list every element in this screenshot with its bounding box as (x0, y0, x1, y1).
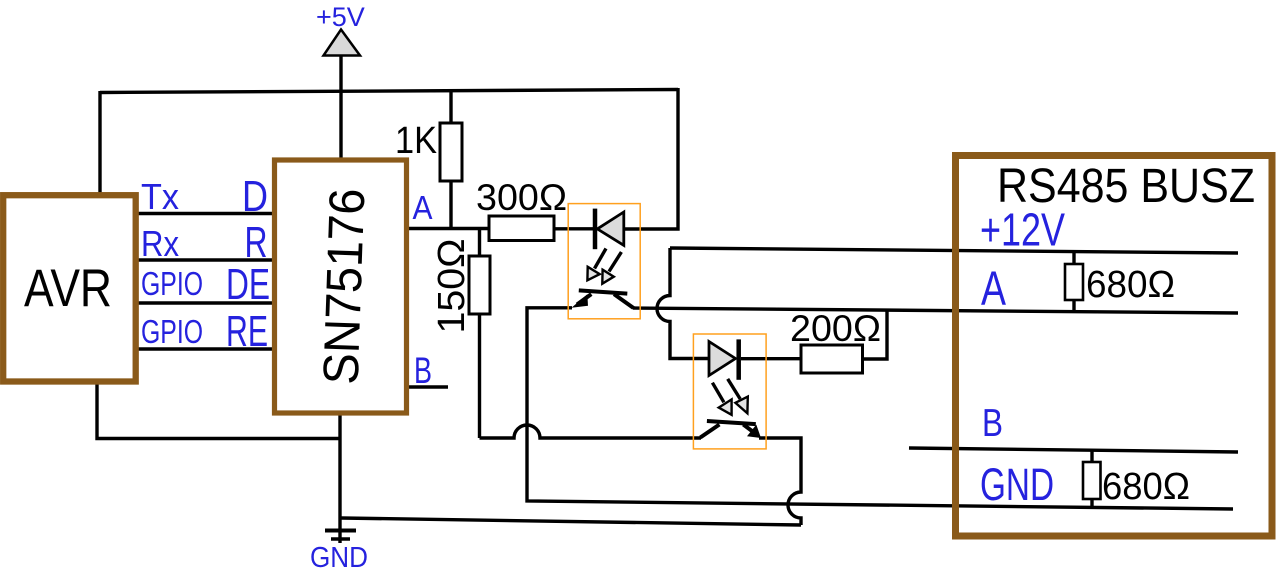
svg-text:RS485 BUSZ: RS485 BUSZ (997, 160, 1255, 213)
svg-text:+5V: +5V (316, 2, 365, 32)
svg-text:SN75176: SN75176 (313, 187, 376, 385)
svg-text:Rx: Rx (141, 223, 179, 264)
svg-text:A: A (981, 263, 1006, 316)
svg-text:150Ω: 150Ω (431, 239, 473, 334)
svg-text:Tx: Tx (141, 176, 179, 217)
svg-text:GPIO: GPIO (141, 265, 203, 302)
svg-text:D: D (242, 172, 268, 221)
svg-text:GND: GND (980, 459, 1054, 510)
svg-text:GND: GND (310, 542, 368, 574)
svg-text:680Ω: 680Ω (1086, 264, 1175, 306)
svg-text:200Ω: 200Ω (790, 307, 881, 349)
svg-text:680Ω: 680Ω (1102, 466, 1190, 508)
svg-text:DE: DE (226, 260, 270, 309)
svg-text:300Ω: 300Ω (476, 176, 567, 218)
svg-text:GPIO: GPIO (141, 313, 203, 350)
svg-text:RE: RE (226, 307, 268, 356)
svg-text:AVR: AVR (24, 259, 112, 318)
svg-text:B: B (414, 350, 432, 391)
svg-text:1K: 1K (395, 120, 437, 162)
svg-text:A: A (413, 189, 433, 226)
svg-text:B: B (982, 402, 1003, 445)
